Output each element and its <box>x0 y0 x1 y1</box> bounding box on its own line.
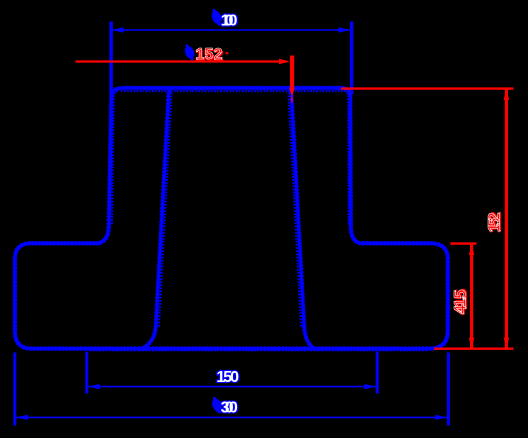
svg-text:152: 152 <box>196 46 223 63</box>
svg-text:150: 150 <box>216 369 239 386</box>
svg-text:41.5: 41.5 <box>451 290 470 314</box>
